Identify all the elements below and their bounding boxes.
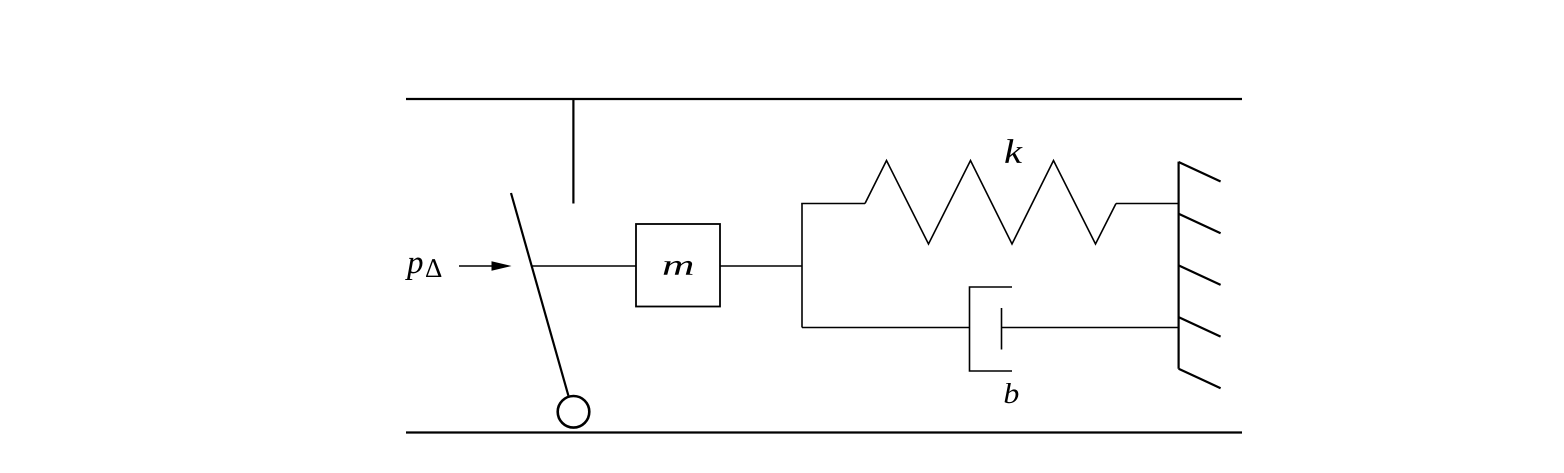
wire node to spring bbox=[801, 203, 865, 205]
input arrow head bbox=[492, 261, 512, 271]
label k bbox=[1005, 139, 1022, 163]
label b bbox=[1005, 383, 1019, 403]
lower boundary wall bbox=[406, 431, 1242, 433]
mass m box bbox=[636, 224, 720, 307]
label m bbox=[664, 261, 693, 275]
wall hatch 4 bbox=[1179, 317, 1221, 337]
flapper pivot roller bbox=[558, 396, 590, 428]
label p_Delta bbox=[405, 257, 422, 280]
wire flapper to mass bbox=[532, 265, 637, 267]
damper piston bbox=[1001, 308, 1003, 350]
wall hatch 1 bbox=[1179, 162, 1221, 182]
wall hatch 5 bbox=[1179, 369, 1221, 389]
flapper lever bbox=[511, 193, 568, 396]
wire mass to node bbox=[720, 265, 802, 267]
node branch vertical wire bbox=[801, 204, 803, 328]
wire node to damper bbox=[802, 327, 970, 329]
wall hatch 3 bbox=[1179, 265, 1221, 285]
wire piston to wall bbox=[1002, 327, 1179, 329]
upper boundary wall bbox=[406, 98, 1242, 100]
fixed wall bbox=[1177, 162, 1179, 369]
damper b cylinder bbox=[970, 287, 1013, 371]
input arrow shaft bbox=[459, 265, 496, 267]
wire spring to wall bbox=[1116, 203, 1179, 205]
nozzle stub wire bbox=[572, 99, 574, 204]
spring k zigzag bbox=[865, 161, 1116, 245]
wall hatch 2 bbox=[1179, 214, 1221, 234]
